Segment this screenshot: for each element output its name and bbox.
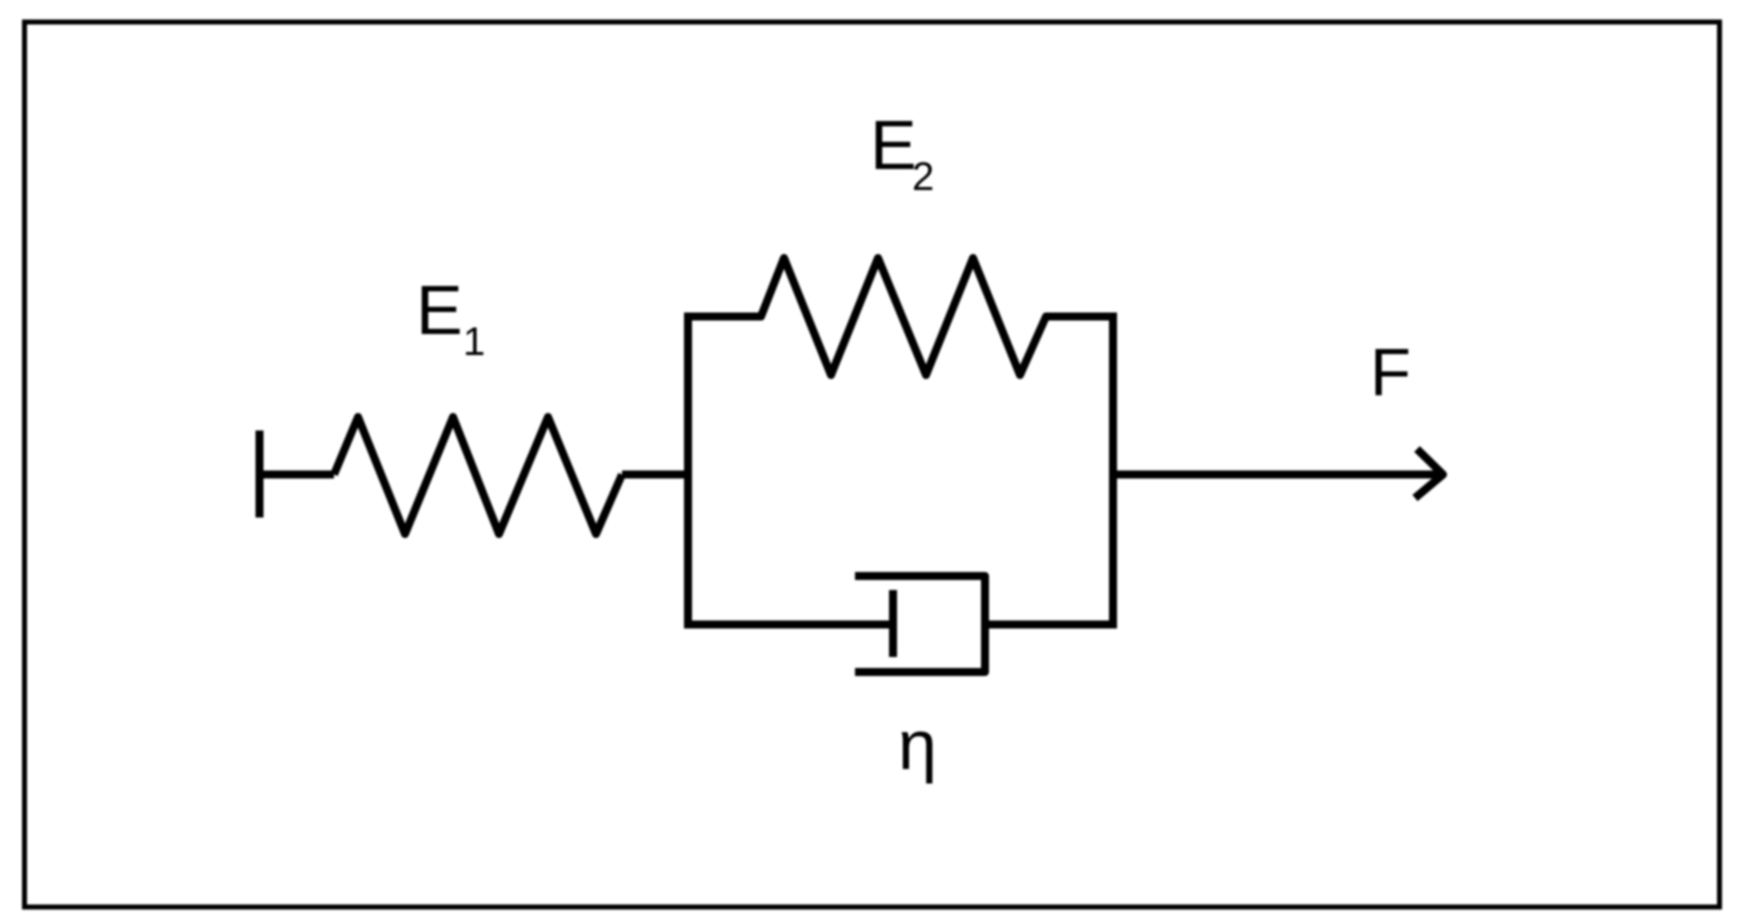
- svg-text:2: 2: [912, 155, 934, 199]
- svg-text:1: 1: [463, 320, 485, 364]
- svg-text:E: E: [870, 106, 917, 184]
- svg-text:F: F: [1370, 335, 1411, 410]
- svg-text:η: η: [898, 706, 937, 784]
- svg-text:E: E: [416, 271, 463, 349]
